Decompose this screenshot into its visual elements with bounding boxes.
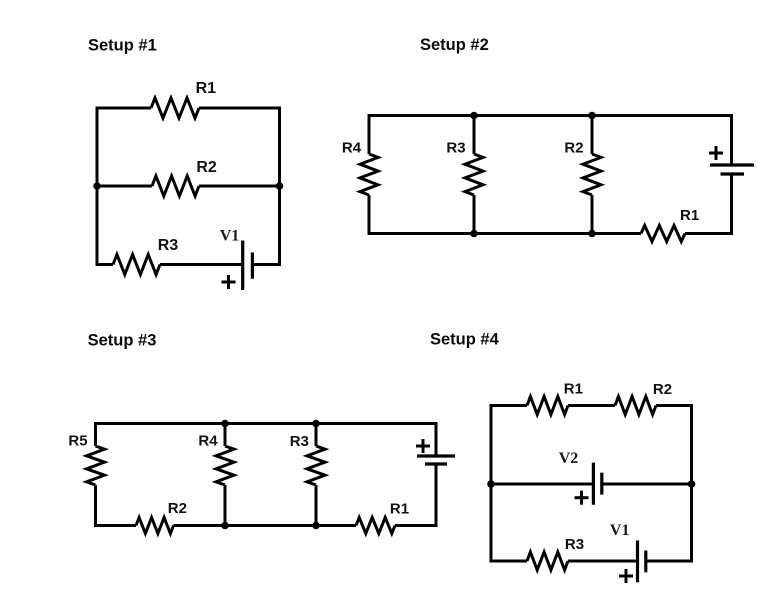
svg-text:R2: R2 [564,139,583,156]
svg-text:R4: R4 [198,433,218,450]
svg-text:V1: V1 [610,522,630,539]
svg-text:R2: R2 [653,381,672,398]
svg-text:Setup #2: Setup #2 [420,36,489,54]
svg-text:R1: R1 [196,80,217,97]
svg-text:R1: R1 [390,501,409,518]
svg-text:V2: V2 [559,450,579,467]
svg-text:R3: R3 [565,536,584,553]
svg-text:R2: R2 [196,159,217,176]
svg-text:R3: R3 [446,139,465,156]
svg-text:Setup #4: Setup #4 [430,331,500,349]
svg-text:R3: R3 [290,433,309,450]
svg-text:R4: R4 [342,139,362,156]
svg-text:Setup #1: Setup #1 [88,37,157,55]
svg-text:R3: R3 [158,237,179,254]
svg-text:R1: R1 [680,207,699,224]
svg-text:R1: R1 [564,381,583,398]
svg-text:Setup #3: Setup #3 [88,332,157,350]
svg-text:V1: V1 [220,228,240,245]
svg-text:R2: R2 [168,500,187,517]
svg-text:R5: R5 [68,433,87,450]
